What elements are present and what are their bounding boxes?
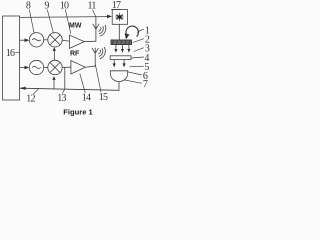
leader 4 [131,57,144,58]
box 17 lamp [112,10,127,25]
wire mixer1 to amp1 [62,40,69,41]
mixer top (9) [48,33,62,47]
irradiation arrows to sample [114,45,130,53]
arrow into box 16 (return) [20,87,26,90]
wire mixer2 to amp2 [62,66,70,68]
amplifier RF [71,61,85,75]
layer 2 hatched electrode [111,40,132,45]
svg-text:MW: MW [69,23,82,30]
wire amp1 to antenna 1 [84,29,96,42]
arrow box16 to oscillator 2nd row [20,67,25,69]
leader 11 [93,10,96,17]
svg-text:15: 15 [99,92,108,103]
antenna RF [92,48,98,54]
reference numerals [6,0,150,116]
leader 13 [62,89,64,93]
svg-text:7: 7 [143,79,148,90]
svg-text:11: 11 [87,1,96,12]
antenna MW (11) [93,24,99,30]
wire amp2 to antenna 2 [85,53,95,67]
RF radiation arcs [98,47,105,59]
leader 14 [80,74,86,93]
svg-text:Figure 1: Figure 1 [63,108,93,117]
amplifier MW (10) [70,35,85,48]
leader 7 [124,80,142,84]
leader 15 [95,65,101,92]
leader 5 [130,65,144,68]
leader 3 [134,48,144,52]
LO link mixer2 top to mixer1 bottom [53,51,55,61]
wire osc to mixer top [44,39,48,41]
lamp star symbol [115,13,123,21]
svg-text:10: 10 [60,1,69,12]
svg-text:8: 8 [26,1,31,12]
leader 17 underline [111,8,121,10]
layer 4 sample plate [110,56,131,60]
svg-text:RF: RF [70,50,80,57]
svg-text:17: 17 [112,0,121,11]
source box 16 [3,16,20,100]
svg-text:16: 16 [6,48,15,59]
mixer bottom [48,60,62,74]
wire lamp to sample stack [118,24,120,40]
svg-text:12: 12 [26,93,35,104]
oscillator top (8) [29,33,43,47]
leader 16 [15,52,19,54]
svg-text:9: 9 [44,1,49,12]
wire top bus from box 16 to box 17 [20,16,108,19]
svg-text:14: 14 [82,92,91,103]
vertical feed from top bus to antenna [95,17,97,24]
rotation arrow (spin) [126,26,138,37]
svg-text:13: 13 [57,93,66,104]
LO feed return to mixer2 [53,80,55,89]
emission arrows to detector [113,60,126,67]
leader 10 [65,10,71,34]
leader 9 [47,10,53,33]
arrow into box 17 [107,15,112,19]
leader 12 [33,89,39,95]
MW radiation arcs [99,25,106,36]
detector dome 7 [110,71,127,82]
wire detector return [20,82,119,91]
leader 2 [133,39,144,43]
leader 6 [128,72,142,75]
wire osc2 to mixer2 [44,67,48,69]
oscillator bottom [29,60,43,74]
leader lines [15,9,144,94]
tap return wire to RF line [64,67,66,89]
leader 8 [29,10,34,33]
leader 1 [137,30,144,33]
rotation arrowhead [125,33,130,39]
arrow box16 to oscillator 8a [20,39,25,41]
